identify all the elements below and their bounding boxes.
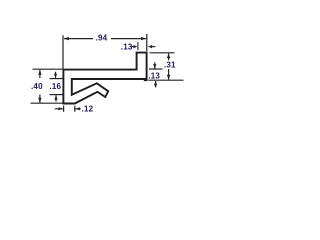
dim .40 top tick bbox=[33, 68, 64, 70]
dim .94 arrow left bbox=[64, 37, 69, 40]
dim .94 arrow right bbox=[141, 37, 146, 40]
dim .13 top left arrowhead bbox=[134, 45, 138, 48]
dim .31 top tick bbox=[150, 52, 175, 54]
dim .16 top arrow (down) bbox=[55, 72, 57, 78]
dim .12 left tick bbox=[63, 106, 65, 112]
svg-text:.40: .40 bbox=[31, 82, 43, 91]
dim .40 lower stub with down arrow bbox=[39, 95, 41, 103]
dim .16 bottom tick bbox=[50, 94, 63, 96]
svg-text:.12: .12 bbox=[82, 105, 94, 114]
svg-text:.94: .94 bbox=[96, 33, 108, 42]
svg-text:.13: .13 bbox=[121, 43, 133, 52]
dim .94 line left segment bbox=[64, 38, 93, 40]
dim .16 top tick bbox=[50, 78, 63, 80]
dim .13 right top arrow (down) bbox=[154, 62, 156, 68]
dim .94 right extension bbox=[146, 34, 148, 52]
svg-text:.16: .16 bbox=[49, 82, 61, 91]
dim .40 bottom tick bbox=[31, 102, 64, 104]
dim .13 top right arrow line bbox=[152, 46, 156, 48]
dim .13 right top tick bbox=[149, 68, 163, 70]
dim .94 line right segment bbox=[111, 38, 146, 40]
dim .13 top right arrowhead bbox=[148, 45, 152, 48]
svg-text:.13: .13 bbox=[148, 71, 160, 80]
dim .13 top left arrow line bbox=[131, 46, 134, 48]
dim .16 bottom arrow (up) bbox=[55, 95, 57, 101]
dim .40 upper stub with up arrow bbox=[39, 70, 41, 78]
dim .12 right arrow (left-pointing) bbox=[76, 108, 81, 110]
profile outline of extrusion cross-section bbox=[63, 53, 146, 104]
dim .94 left extension bbox=[62, 35, 64, 69]
dim .31 lower stub with down arrow bbox=[168, 69, 170, 80]
dim .13 top left extension bbox=[137, 42, 139, 50]
dim .12 right tick bbox=[74, 106, 76, 112]
svg-text:.31: .31 bbox=[164, 60, 176, 69]
dim .31 upper stub with up arrow bbox=[168, 53, 170, 60]
dim .31 / .13 shared bottom tick bbox=[148, 79, 183, 81]
dim .13 right bottom arrow (up) bbox=[155, 81, 157, 87]
dim .12 left arrow (right-pointing) bbox=[55, 108, 63, 110]
